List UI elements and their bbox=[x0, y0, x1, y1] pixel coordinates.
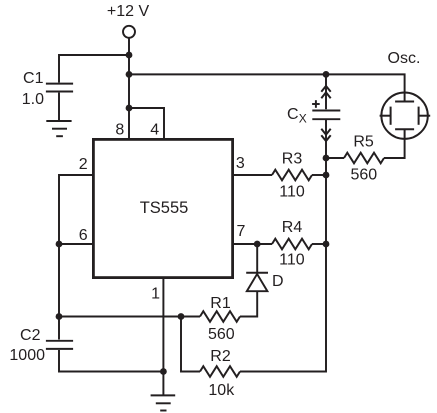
wire ground stub bbox=[162, 372, 164, 396]
op-amp U1 TS555 box bbox=[93, 139, 232, 277]
ground under C1 bbox=[46, 121, 71, 136]
svg-text:110: 110 bbox=[279, 184, 305, 201]
capacitor C1 bbox=[46, 84, 73, 92]
diode D top lead bbox=[256, 244, 258, 273]
wire R5 left lead bbox=[326, 157, 344, 159]
node junction top rail / Cx bbox=[323, 71, 330, 78]
wire R3 to right rail bbox=[312, 174, 326, 176]
svg-text:10k: 10k bbox=[208, 382, 235, 399]
svg-text:X: X bbox=[299, 112, 307, 126]
wire R2 branch bbox=[181, 317, 200, 372]
node junction pin 1 / ground bbox=[160, 368, 167, 375]
svg-text:+12 V: +12 V bbox=[107, 3, 150, 20]
resistor R1 bbox=[200, 311, 240, 322]
svg-text:D: D bbox=[272, 273, 284, 290]
polarity + sign bbox=[312, 100, 320, 108]
svg-text:R3: R3 bbox=[282, 151, 303, 168]
svg-text:6: 6 bbox=[79, 227, 88, 244]
wire top rail to C1 branch bbox=[59, 55, 129, 83]
svg-text:110: 110 bbox=[279, 252, 305, 269]
wire pin 4 branch bbox=[129, 108, 164, 139]
node junction left rail / trigger wire bbox=[56, 313, 63, 320]
svg-text:Osc.: Osc. bbox=[388, 50, 421, 67]
node junction pin 6 / left rail bbox=[56, 241, 63, 248]
capacitor Cx bbox=[312, 111, 340, 120]
svg-text:3: 3 bbox=[236, 155, 245, 172]
svg-text:1: 1 bbox=[151, 285, 160, 302]
resistor R2 bbox=[200, 366, 240, 377]
svg-text:4: 4 bbox=[150, 122, 159, 139]
svg-text:2: 2 bbox=[79, 156, 88, 173]
wire R2 to right rail bbox=[240, 244, 326, 372]
wire C2 bottom to ground node bbox=[59, 350, 163, 372]
node junction R5 / right rail bbox=[323, 155, 330, 162]
svg-text:8: 8 bbox=[115, 122, 124, 139]
svg-text:R4: R4 bbox=[282, 219, 303, 236]
node junction R4 / right rail bbox=[323, 241, 330, 248]
wire +12V rail to pin 8 bbox=[128, 38, 130, 139]
pin 6 wire bbox=[59, 243, 94, 245]
ground bottom bbox=[151, 395, 176, 410]
terminal +12V supply bbox=[123, 26, 135, 38]
node junction +12V / C1 bbox=[126, 52, 133, 59]
svg-text:R1: R1 bbox=[210, 295, 231, 312]
resistor R5 bbox=[344, 153, 384, 164]
svg-text:C1: C1 bbox=[23, 70, 44, 87]
pin 1 wire bbox=[162, 279, 164, 372]
svg-text:C2: C2 bbox=[20, 327, 41, 344]
wire trigger node horizontal bbox=[59, 316, 200, 318]
node junction R3 / right rail bbox=[323, 172, 330, 179]
svg-text:C: C bbox=[287, 106, 299, 123]
pin 2 wire bbox=[59, 175, 94, 340]
svg-text:560: 560 bbox=[208, 326, 235, 343]
svg-text:R2: R2 bbox=[210, 348, 231, 365]
wire R1 to diode anode bbox=[240, 291, 257, 316]
wire right rail lower (Cx to R5/R3) bbox=[325, 120, 327, 244]
diode D bbox=[246, 273, 268, 292]
svg-text:1.0: 1.0 bbox=[22, 91, 44, 108]
pin 7 wire bbox=[233, 243, 272, 245]
svg-text:R5: R5 bbox=[353, 134, 374, 151]
wire R4 to right rail bbox=[312, 243, 326, 245]
node junction +12V / pin 4 bbox=[126, 105, 133, 112]
capacitor C2 bbox=[46, 341, 73, 349]
node junction pin 7 / diode bbox=[254, 241, 261, 248]
svg-text:1000: 1000 bbox=[9, 347, 45, 364]
resistor R4 bbox=[272, 239, 312, 250]
wire right rail upper (to Cx) bbox=[325, 74, 327, 109]
arrow up chevrons above Cx bbox=[321, 86, 330, 98]
node junction R1 / R2 branch bbox=[178, 313, 185, 320]
arrow down chevrons below Cx bbox=[321, 129, 330, 141]
svg-text:7: 7 bbox=[237, 223, 246, 240]
wire oscilloscope bottom lead to R5 bbox=[384, 139, 405, 158]
svg-text:TS555: TS555 bbox=[140, 199, 189, 217]
wire C1 bottom lead bbox=[58, 93, 60, 121]
oscilloscope symbol bbox=[380, 93, 431, 139]
node junction +12V / top rail bbox=[126, 71, 133, 78]
svg-text:560: 560 bbox=[350, 167, 377, 184]
resistor R3 bbox=[272, 170, 312, 181]
pin 3 wire bbox=[233, 174, 272, 176]
wire top horizontal rail to oscilloscope bbox=[129, 74, 405, 101]
